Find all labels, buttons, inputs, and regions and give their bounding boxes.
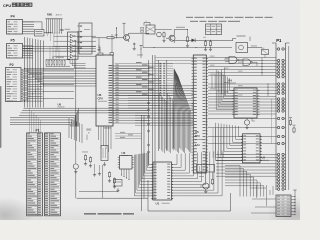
svg-text:U4: U4 — [228, 79, 232, 83]
svg-text:U1: U1 — [156, 202, 160, 206]
svg-text:Φ: Φ — [88, 132, 90, 135]
svg-text:U2: U2 — [262, 156, 266, 160]
svg-text:P2: P2 — [10, 63, 14, 67]
svg-text:P4: P4 — [11, 15, 15, 19]
svg-text:BM2: BM2 — [87, 130, 92, 132]
svg-text:U8: U8 — [58, 103, 62, 107]
svg-text:CPU: CPU — [98, 97, 104, 101]
svg-text:U6: U6 — [98, 93, 102, 97]
svg-text:Φ: Φ — [52, 57, 54, 60]
svg-text:RM1: RM1 — [47, 13, 53, 17]
svg-text:CPU: CPU — [3, 3, 11, 8]
svg-text:P1: P1 — [36, 129, 40, 133]
svg-text:40K×8: 40K×8 — [56, 13, 63, 16]
svg-text:U3: U3 — [122, 151, 126, 155]
svg-text:U3: U3 — [60, 28, 64, 32]
svg-text:P5: P5 — [11, 39, 15, 43]
svg-text:P1: P1 — [276, 38, 282, 43]
